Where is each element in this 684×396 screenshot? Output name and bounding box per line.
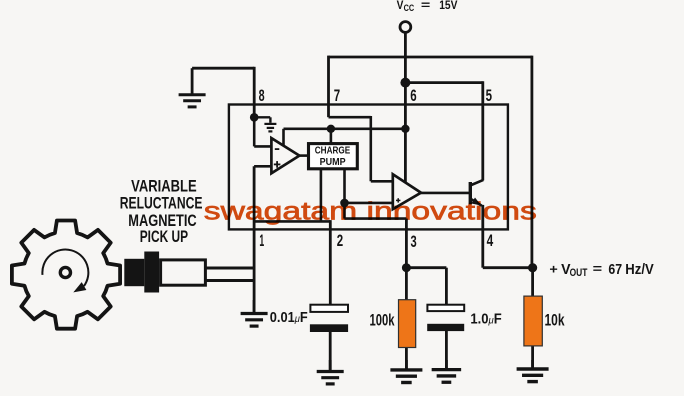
svg-text:5: 5 <box>486 87 492 105</box>
svg-text:0.01μF: 0.01μF <box>270 310 308 326</box>
svg-text:RELUCTANCE: RELUCTANCE <box>120 195 203 213</box>
svg-text:CC: CC <box>404 3 415 13</box>
svg-text:15V: 15V <box>439 0 457 12</box>
svg-text:2: 2 <box>337 232 343 250</box>
svg-text:100k: 100k <box>370 311 396 329</box>
svg-text:VARIABLE: VARIABLE <box>131 178 197 196</box>
svg-text:=: = <box>593 261 603 276</box>
svg-text:10k: 10k <box>545 311 566 329</box>
svg-text:PUMP: PUMP <box>320 157 346 168</box>
svg-text:PICK UP: PICK UP <box>140 228 188 246</box>
svg-text:6: 6 <box>410 87 416 105</box>
svg-text:V: V <box>397 0 404 12</box>
svg-text:3: 3 <box>411 233 417 251</box>
svg-text:7: 7 <box>334 87 340 105</box>
svg-text:Hz/V: Hz/V <box>625 262 654 278</box>
svg-text:1: 1 <box>259 232 264 250</box>
svg-text:67: 67 <box>608 262 622 278</box>
svg-text:swaɡatam innovations: swaɡatam innovations <box>204 198 537 226</box>
svg-text:4: 4 <box>487 232 494 250</box>
svg-text:=: = <box>421 0 431 12</box>
svg-text:1.0μF: 1.0μF <box>470 311 501 327</box>
svg-text:CHARGE: CHARGE <box>315 145 351 156</box>
svg-text:+: + <box>549 262 558 277</box>
svg-text:8: 8 <box>259 87 265 105</box>
svg-text:OUT: OUT <box>570 267 588 279</box>
